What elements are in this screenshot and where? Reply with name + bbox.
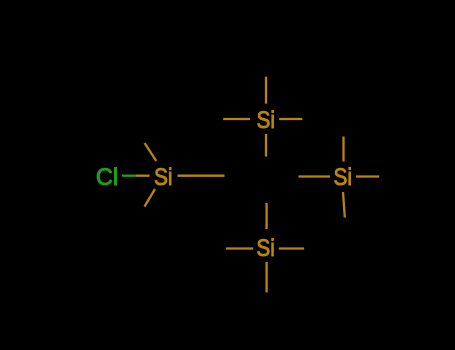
svg-text:Si: Si [154,163,173,191]
svg-text:Cl: Cl [96,164,118,192]
svg-text:Si: Si [334,163,353,191]
svg-text:Si: Si [256,233,275,261]
svg-text:Si: Si [257,105,276,133]
